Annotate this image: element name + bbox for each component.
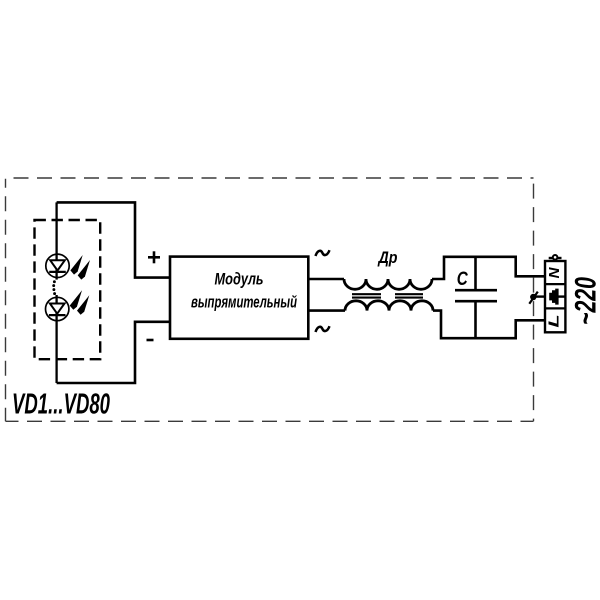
- PE earth symbol in middle cell: [549, 289, 565, 305]
- choke Dr top winding: [344, 279, 432, 289]
- wire: LED chain vertical upper: [55, 202, 57, 279]
- rectifier module U1 box: [170, 257, 308, 339]
- LED VD1: [46, 254, 69, 277]
- VD1 light arrows: [70, 255, 90, 280]
- svg-text:VD1...VD80: VD1...VD80: [12, 389, 110, 421]
- enclosure dashed boundary (lamp housing): [6, 178, 534, 421]
- earth wire to enclosure: [534, 295, 545, 297]
- LED VD80: [46, 297, 69, 320]
- svg-text:C: C: [457, 267, 468, 289]
- wire: anode to module +: [57, 202, 170, 277]
- + polarity mark: [148, 251, 160, 263]
- ~ mark bottom: [316, 326, 330, 332]
- VD80 light arrows: [70, 290, 90, 315]
- capacitor C: [455, 257, 497, 338]
- wire: LED chain vertical lower: [55, 295, 57, 383]
- wire: module AC bottom output: [308, 309, 345, 312]
- earth bond point on enclosure: [529, 292, 538, 304]
- choke Dr bottom winding: [345, 301, 433, 311]
- screw/earth stud on top of block: [549, 255, 562, 260]
- svg-text:Модуль: Модуль: [215, 270, 264, 289]
- LED board dashed outline: [35, 220, 101, 359]
- svg-text:выпрямительный: выпрямительный: [191, 293, 297, 312]
- svg-text:L: L: [545, 314, 562, 327]
- terminal block dividers: [545, 284, 565, 308]
- - polarity mark: [147, 339, 154, 342]
- svg-text:Др: Др: [377, 248, 398, 267]
- svg-text:N: N: [546, 266, 563, 278]
- ~ mark top: [316, 250, 330, 256]
- terminal block X1: [545, 261, 565, 332]
- choke core lines: [352, 294, 423, 297]
- series dots between LEDs: [52, 280, 56, 295]
- wire: module - back to cathode: [57, 322, 170, 383]
- wire: choke to top rail to N terminal: [432, 257, 545, 279]
- wire: module AC top output: [308, 278, 344, 281]
- wire: choke to bottom rail to L terminal: [433, 311, 545, 339]
- svg-text:~220: ~220: [570, 277, 600, 325]
